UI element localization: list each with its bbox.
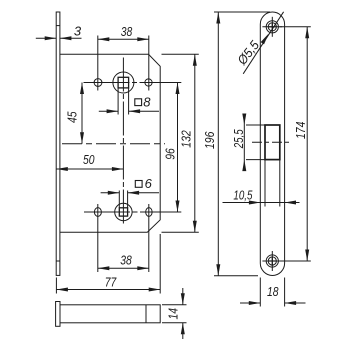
bottom screw outer <box>266 255 278 267</box>
ext line lower-left hole <box>97 204 99 272</box>
upper spindle square 8mm <box>118 77 129 88</box>
latch centerline <box>252 141 291 143</box>
dim 25.5 ext lines <box>246 124 265 126</box>
dim 77 ext left <box>55 278 57 294</box>
top screw inner <box>268 23 276 31</box>
arrows dim 132 <box>193 54 197 66</box>
dim 77 line <box>56 289 160 291</box>
bottom screw cross <box>271 257 273 264</box>
arrows dim 38 bottom <box>98 266 110 270</box>
dim 14 ext lines <box>162 304 187 306</box>
svg-text:45: 45 <box>65 111 80 123</box>
arrows dim 25.5 <box>242 114 246 126</box>
arrows dim 10.5 <box>249 201 261 205</box>
lower left screw hole <box>94 208 101 217</box>
strip screw tick top <box>56 25 60 27</box>
svg-text:96: 96 <box>163 148 178 160</box>
lower right screw hole <box>146 208 152 217</box>
svg-text:196: 196 <box>202 131 217 149</box>
top screw outer <box>266 21 278 33</box>
ext line upper-right hole <box>148 36 150 91</box>
lock body outline <box>60 54 160 232</box>
svg-text:77: 77 <box>105 275 117 290</box>
arrows dim 77 <box>56 288 68 292</box>
arrows dim 45 <box>80 83 84 95</box>
bottom screw inner <box>268 257 276 265</box>
svg-text:10,5: 10,5 <box>233 188 253 203</box>
dim 196 ext bottom <box>214 275 258 277</box>
dim 14 line <box>182 288 184 305</box>
dim 45 line <box>81 83 83 144</box>
dim 10.5 ext lines <box>264 160 266 207</box>
arrows dim 14 <box>181 293 185 305</box>
ext line lower-right hole <box>148 204 150 272</box>
top screw crosshair <box>262 26 282 28</box>
dim 38 bottom line <box>98 267 149 269</box>
svg-text:25,5: 25,5 <box>231 129 246 149</box>
svg-text:14: 14 <box>165 308 180 320</box>
dim 50 line <box>56 168 123 170</box>
dim 3 line <box>36 37 56 39</box>
dim 132 ext bottom <box>162 231 199 233</box>
arrows dim 96 <box>176 83 180 95</box>
svg-text:132: 132 <box>179 130 194 148</box>
arrow leader 5.5 <box>261 33 271 45</box>
dim 132 line <box>194 54 196 232</box>
upper spindle hole U <box>113 72 134 93</box>
strip screw tick bottom <box>56 260 60 262</box>
lower spindle square 6mm <box>119 208 127 216</box>
front plate outline (right view) <box>260 12 284 275</box>
dim 132 ext top <box>162 53 199 55</box>
svg-text:50: 50 <box>83 152 95 167</box>
svg-text:6: 6 <box>145 176 153 191</box>
lower holes centerline <box>84 211 181 213</box>
dim 196 ext top <box>214 11 270 13</box>
label square6 symbol <box>135 181 142 188</box>
dim 174 ext lines <box>280 26 311 28</box>
svg-text:Ø5,5: Ø5,5 <box>234 37 263 68</box>
dim 10.5 line <box>223 202 300 204</box>
svg-text:38: 38 <box>121 24 133 39</box>
lower spindle hole <box>115 203 132 220</box>
svg-text:18: 18 <box>267 284 279 299</box>
dim 8 line <box>99 110 118 112</box>
dim 77 ext right <box>159 234 161 294</box>
top screw cross <box>271 23 273 30</box>
dim 25.5 line <box>243 115 245 172</box>
ext line upper-left hole <box>97 36 99 91</box>
dim 6 line <box>101 192 120 194</box>
dim 6 ext lines <box>118 191 120 208</box>
dim 8 ext lines <box>117 88 119 115</box>
svg-text:174: 174 <box>293 122 308 140</box>
dim 38 top line <box>98 38 149 40</box>
dim 18 line <box>240 302 260 304</box>
svg-text:38: 38 <box>120 253 132 268</box>
upper left screw hole <box>94 79 102 87</box>
label square8 symbol <box>135 99 142 106</box>
leader diameter 5.5 <box>243 12 283 74</box>
dim 174 line <box>306 27 308 261</box>
faceplate edge strip (left view) <box>56 12 60 275</box>
arrows dim 196 <box>216 12 220 24</box>
bottom strip side view: left cap <box>56 302 60 327</box>
spindle vertical centerline <box>122 58 124 227</box>
svg-text:3: 3 <box>74 24 82 39</box>
dim 196 line <box>217 12 219 276</box>
svg-text:8: 8 <box>143 94 151 109</box>
arrows dim 38 top <box>98 37 110 41</box>
arrows dim 6 <box>108 191 120 195</box>
bottom strip divider <box>145 305 147 323</box>
bottom screw crosshair <box>262 260 282 262</box>
upper right screw hole <box>145 79 152 86</box>
arrows dim 3 <box>45 36 57 40</box>
arrows dim 8 <box>107 109 119 113</box>
dim 18 ext lines <box>259 278 261 307</box>
upper holes centerline <box>84 82 182 84</box>
arrows dim 50 <box>56 167 68 171</box>
bottom strip body <box>60 305 160 323</box>
arrows dim 18 <box>249 301 261 305</box>
latch opening <box>265 125 280 160</box>
arrows dim 174 <box>305 27 309 39</box>
body horizontal centerline (dashed) <box>62 143 165 145</box>
dim 96 line <box>177 83 179 213</box>
